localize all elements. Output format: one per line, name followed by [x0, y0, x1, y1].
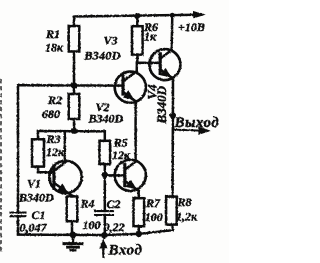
wire C1 to bottom rail: [17, 216, 20, 234]
svg-text:В340D: В340D: [84, 49, 121, 63]
node C2 bottom dot: [101, 232, 108, 239]
resistor R2: [69, 85, 80, 130]
wire V2 collector to V3 emitter: [134, 101, 137, 161]
wire V3 base line: [18, 84, 122, 87]
svg-text:R1: R1: [45, 27, 60, 41]
svg-text:12к: 12к: [46, 145, 65, 159]
wire bottom rail: [18, 230, 173, 235]
svg-text:100: 100: [145, 210, 163, 224]
wire V4 emitter down to R8: [171, 79, 174, 197]
wire V2 base lead: [105, 174, 124, 177]
svg-text:1,2к: 1,2к: [176, 210, 198, 224]
svg-text:С2: С2: [107, 197, 121, 211]
transistor V4: [149, 49, 180, 80]
wire V4 collector to rail: [170, 15, 173, 50]
transistor V2: [115, 160, 146, 199]
svg-text:R4: R4: [80, 196, 95, 210]
wire page edge noise: [0, 80, 2, 255]
resistor R3: [32, 131, 53, 172]
svg-text:1к: 1к: [144, 29, 157, 43]
node Vyhod arrow: [173, 130, 200, 131]
svg-text:R7: R7: [145, 196, 161, 210]
svg-text:680: 680: [42, 107, 60, 121]
svg-text:V1: V1: [27, 177, 41, 191]
node R4/ground junction dot: [70, 232, 77, 239]
node V4 collector rail dot: [170, 13, 175, 18]
svg-text:0,22: 0,22: [104, 220, 125, 234]
svg-text:R8: R8: [177, 195, 192, 209]
resistor R1: [69, 17, 80, 86]
resistor R7: [134, 198, 145, 234]
wire collector bus y=131: [38, 130, 105, 133]
svg-text:Вход: Вход: [108, 242, 143, 258]
capacitor C2: [95, 175, 113, 235]
svg-text:100: 100: [83, 218, 101, 232]
svg-text:0,047: 0,047: [20, 221, 48, 235]
svg-text:R5: R5: [113, 135, 128, 149]
resistor R5: [100, 131, 111, 174]
node Vhod arrow: [102, 247, 104, 257]
svg-text:R2: R2: [47, 93, 62, 107]
node +10V rail arrowhead: [194, 12, 205, 18]
svg-text:12к: 12к: [112, 148, 131, 162]
svg-text:+10В: +10В: [178, 20, 205, 34]
wire V3 collector to R6 node: [135, 63, 138, 72]
svg-text:18к: 18к: [45, 41, 64, 55]
capacitor C1: [11, 213, 26, 217]
svg-text:В340D: В340D: [18, 190, 54, 204]
node R7 bottom dot: [136, 231, 142, 237]
node output tap dot: [170, 112, 176, 118]
transistor V3: [115, 71, 146, 103]
node R2 bottom dot: [71, 128, 77, 134]
svg-text:В340D: В340D: [88, 112, 124, 126]
resistor R8: [166, 197, 177, 231]
svg-text:Выход: Выход: [174, 115, 220, 131]
node R6 top dot: [134, 13, 140, 19]
svg-text:В340D: В340D: [154, 85, 169, 124]
resistor R4: [67, 196, 78, 235]
node R1/R2 junction dot: [71, 82, 77, 88]
wire left branch down to C1: [17, 85, 20, 211]
svg-text:V3: V3: [104, 34, 118, 48]
transistor V1: [49, 131, 81, 195]
ground: [64, 235, 82, 251]
wire R6/V3 node to V4 base: [137, 61, 159, 64]
wire top supply rail: [74, 15, 196, 17]
node R5/C2/V2-base junction dot: [102, 172, 108, 178]
svg-text:R3: R3: [46, 132, 61, 146]
resistor R6: [132, 16, 143, 63]
